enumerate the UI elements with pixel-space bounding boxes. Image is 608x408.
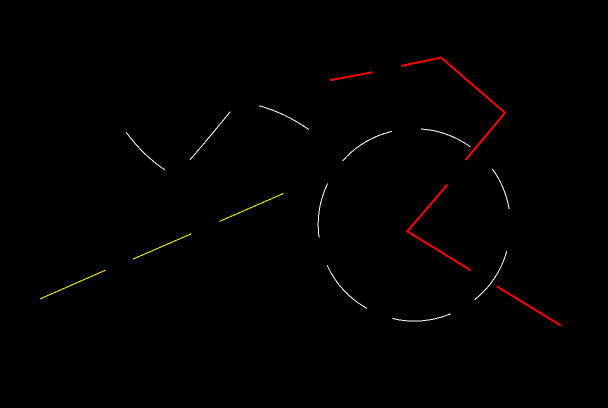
white dashed circle, top-left arc	[343, 131, 392, 160]
red dashed polyline, dash 1	[330, 72, 372, 80]
white dashed circle, bottom arc	[392, 314, 450, 321]
red dashed polyline, dash 3 (over corner)	[407, 185, 470, 271]
white dashed circle, top arc	[421, 129, 470, 147]
white dashed circle, bottom-left arc	[327, 265, 367, 308]
white dashed circle, left arc	[318, 184, 327, 238]
white dashed freehand curve, dash 1	[126, 132, 165, 170]
white dashed freehand curve, dash 2	[190, 112, 230, 160]
yellow dashed line, dash 3	[220, 194, 284, 222]
red dashed polyline, dash 2 (over two corners)	[401, 58, 505, 160]
white dashed circle, top-right arc	[492, 169, 509, 209]
yellow dashed line, dash 1	[40, 270, 105, 299]
yellow dashed line, dash 2	[133, 234, 191, 259]
white dashed circle, bottom-right arc	[475, 251, 507, 300]
red dashed polyline, dash 4	[497, 286, 561, 325]
white dashed freehand curve, dash 3	[259, 106, 309, 130]
